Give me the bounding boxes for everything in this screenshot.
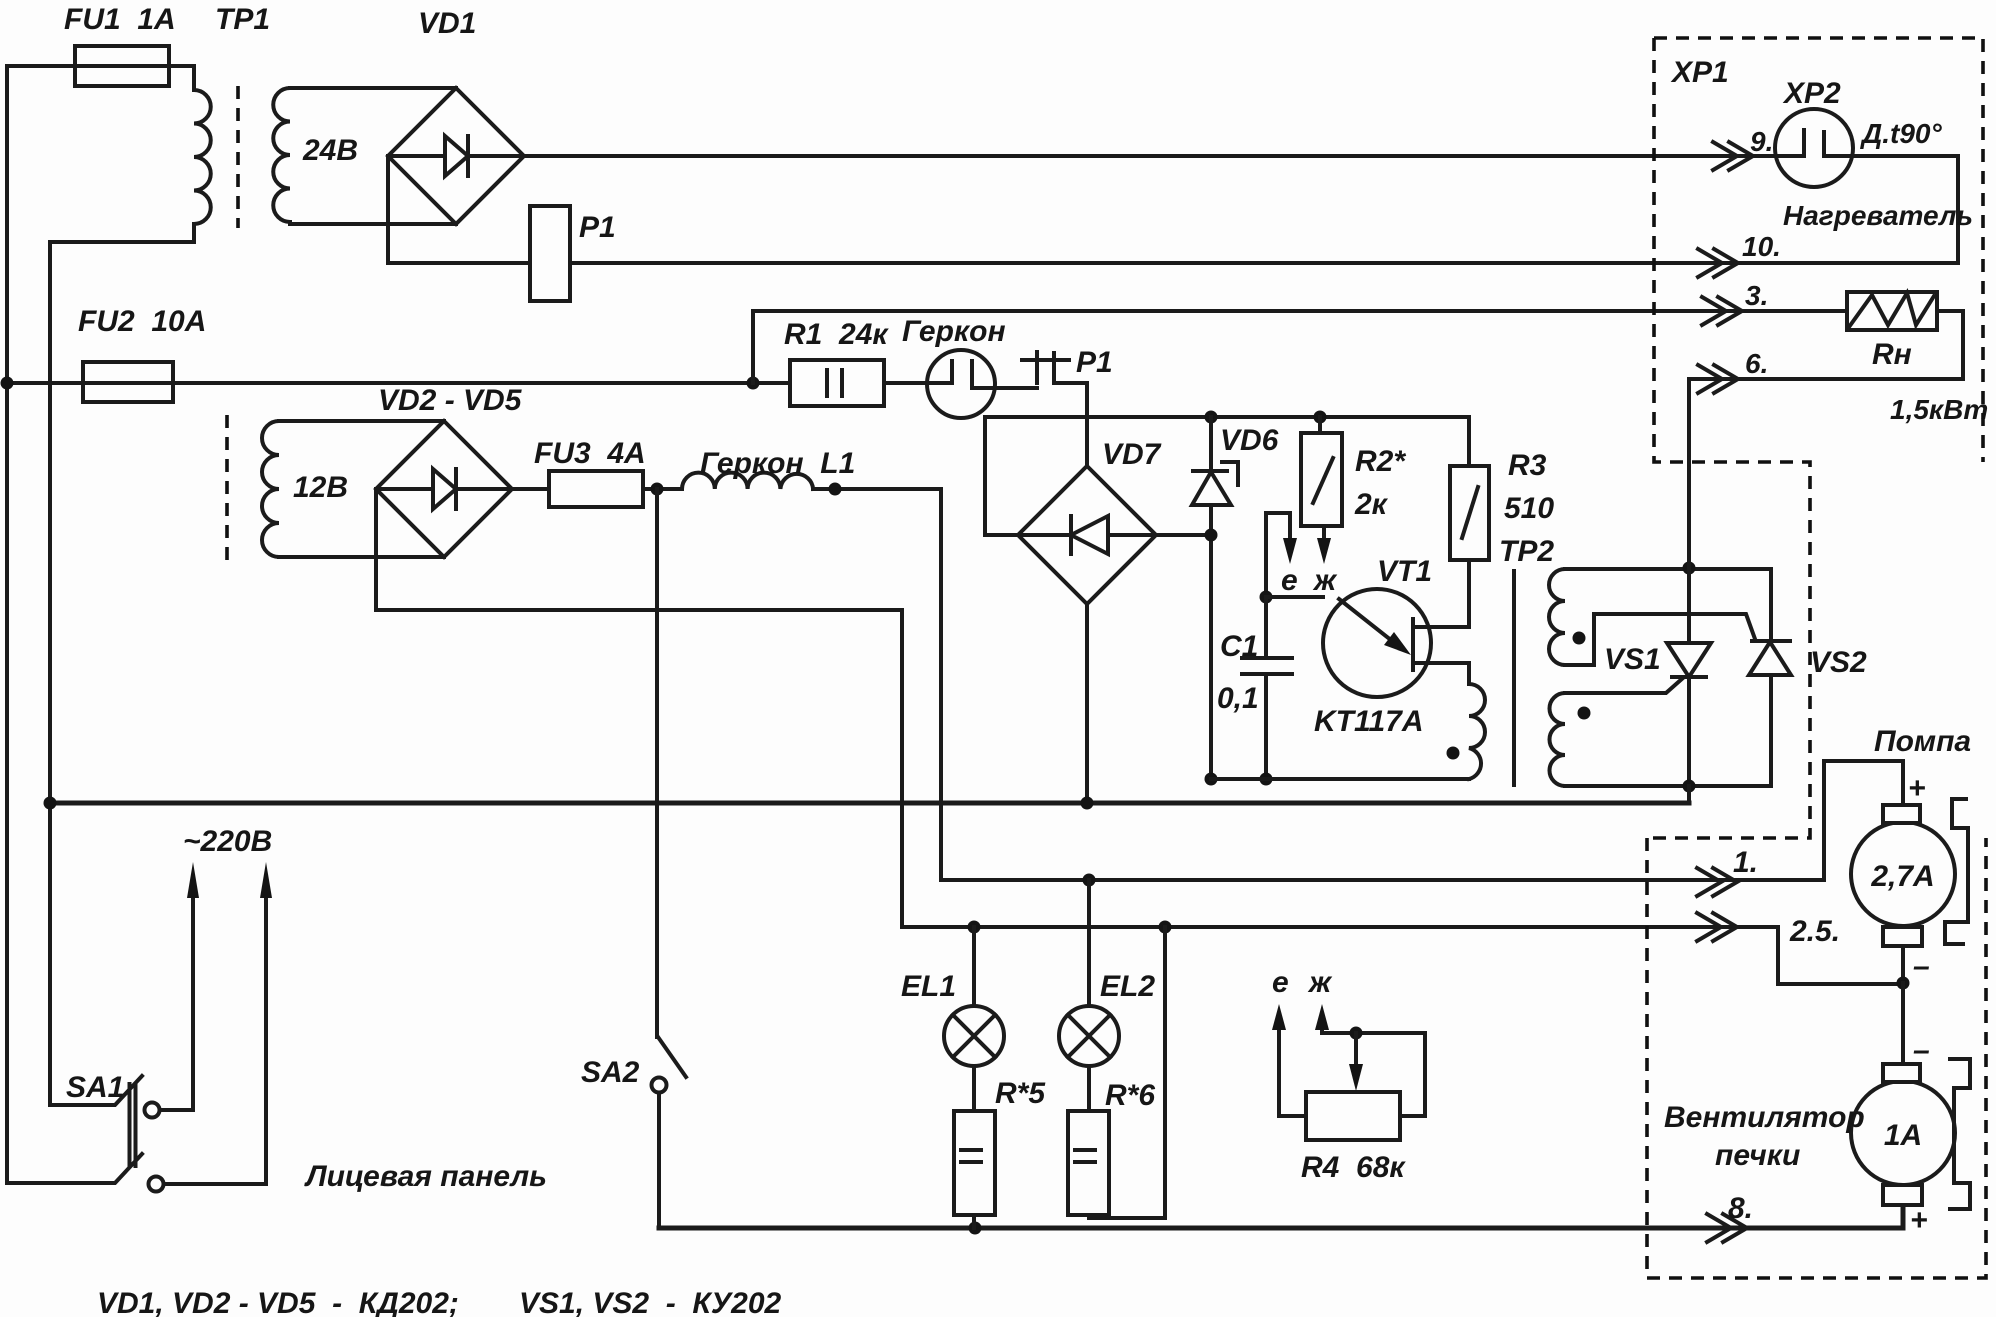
wire TP2 lower secondary top lead to VS1 gate [1565,678,1683,693]
wire VD1 plus output to XP2 (pin 9 circuit) [524,154,1804,158]
wire FU3 to L1 [643,487,682,491]
pin 10 arrow [1698,249,1738,277]
svg-text:C1: C1 [1220,630,1258,663]
pin 3 arrow [1702,297,1742,325]
wire bridge plus to FU3 [512,487,549,491]
wire VD1 minus output to relay P1 [388,156,530,263]
wire relay P1 to pin 10 [570,261,1742,265]
pin 9 arrow [1713,142,1753,170]
transformer TP2 upper secondary winding [1549,569,1565,665]
node FU3 output junction [651,483,664,496]
transformer TP2 lower secondary winding [1549,693,1565,786]
wire R*5 to bottom line [972,1215,976,1228]
svg-text:Д.t90°: Д.t90° [1860,118,1942,149]
pin 8 arrow [1707,1214,1747,1242]
svg-text:Геркон: Геркон [902,315,1006,348]
svg-text:1.: 1. [1733,846,1758,879]
svg-text:P1: P1 [1076,346,1113,379]
bridge rectifier VD1 [388,88,524,224]
wire reed switch to contact P1 [995,386,1037,390]
node EL2 branch junction [1083,874,1096,887]
wire 24V winding bottom lead [290,222,456,226]
wire R2 wiper arrow е hook [1266,513,1290,597]
wire SA2 to bottom line [657,1093,661,1228]
svg-text:TP2: TP2 [1499,535,1554,568]
capacitor C1 [1242,597,1292,779]
node pin 2.5 line EL1 junction [968,921,981,934]
transformer TP1 core (dashed) [236,86,240,228]
contact P1 of relay [1022,352,1069,383]
node rail VD7 junction [1081,797,1094,810]
svg-text:KT117A: KT117A [1314,705,1423,738]
wire 220V line through FU2 to R1 branch [7,381,790,385]
svg-text:R*6: R*6 [1105,1079,1155,1112]
node TP2 upper secondary polarity dot [1573,632,1586,645]
svg-text:SA1: SA1 [66,1071,124,1104]
wire mains left vertical [5,66,9,1183]
wire pin 3 line (R1 branch riser to Rн) [753,311,1847,383]
svg-text:TP1: TP1 [215,3,270,36]
wire bridge minus down and across to pin 2.5 line [376,489,1903,984]
inductor L1 reed coil [682,473,813,489]
node R4 wiper junction [1350,1027,1363,1040]
transistor VT1 [1323,589,1431,697]
transformer TP1 second core (dashed) [225,415,229,562]
svg-text:EL2: EL2 [1100,970,1155,1003]
svg-text:Нагреватель: Нагреватель [1783,200,1973,231]
wire R2 wiper arrow ж [1322,526,1326,541]
node top rail - VD6 [1205,411,1218,424]
resistor R1 [790,360,884,406]
wire EL1 top [972,927,976,1006]
svg-text:ж: ж [1307,966,1333,999]
svg-text:12В: 12В [293,471,348,504]
wire 24V winding top lead [290,86,456,90]
svg-text:R*5: R*5 [995,1077,1046,1110]
wire R4 terminal ж [1322,1014,1425,1116]
svg-text:3.: 3. [1745,280,1768,311]
motor fan 1A [1851,1081,1955,1185]
node VD6 bottom junction [1205,773,1218,786]
svg-text:2,7A: 2,7A [1870,860,1934,893]
node VS bottom junction [1683,780,1696,793]
svg-text:R3: R3 [1508,449,1547,482]
svg-text:8.: 8. [1728,1192,1753,1225]
svg-text:P1: P1 [579,211,616,244]
svg-text:Лицевая панель: Лицевая панель [304,1160,547,1193]
wire VS junction to main rail [1687,786,1691,803]
wire TP2 upper secondary top lead to thyristors [1565,567,1771,571]
wire 12V winding bottom lead [279,555,444,559]
resistor R2 variable [1318,417,1322,433]
svg-text:е: е [1272,966,1289,999]
pin 6 arrow [1698,365,1738,393]
relay coil P1 [530,206,570,301]
resistor R*5 [954,1111,995,1215]
wire 12V winding top lead [279,419,444,423]
bridge rectifier VD7 [1018,466,1156,604]
thyristor VS1 [1667,568,1711,786]
transformer TP1 24V secondary winding [273,88,290,222]
node TP2 primary polarity dot [1447,747,1460,760]
svg-text:VD1: VD1 [418,7,476,40]
svg-text:1A: 1A [1884,1119,1922,1152]
svg-text:~220В: ~220В [183,825,272,858]
wire bottom line SA2 to fan plus (pin 8 line) [659,1206,1903,1228]
lamp EL1 [944,1006,1004,1066]
fuse FU1 [75,46,169,86]
svg-text:FU2 10A: FU2 10A [78,305,206,338]
wire SA2 riser [655,489,659,1037]
wire oscillator plus frame (VD7 left corner to top rail to R3) [985,417,1469,535]
fuse FU3 [549,471,643,507]
node top rail - R2 [1314,411,1327,424]
reed switch Геркон [927,350,995,418]
node pin 2.5 line EL2-loop junction [1159,921,1172,934]
wire contact P1 down to VD7 bridge [1054,383,1087,466]
zener diode VD6 [1192,417,1238,779]
wire TP2 lower secondary bottom lead [1565,784,1771,788]
wire SA1 pole2 to 220V arrow [164,896,266,1184]
node FU2 line left junction [1,377,14,390]
wire VT1 base2 to TP2 primary [1413,663,1469,684]
svg-text:+: + [1908,772,1926,805]
node TP2 lower secondary polarity dot [1578,707,1591,720]
resistor Rн heater [1847,292,1937,330]
svg-text:XP2: XP2 [1782,77,1841,110]
switch SA1 pole 1 [50,1076,142,1105]
svg-text:XP1: XP1 [1670,56,1729,89]
wire R*6 loop back to pin 2.5 line [1089,927,1165,1218]
svg-text:VD2 - VD5: VD2 - VD5 [378,384,523,417]
wire SA1 pole1 to 220V arrow [160,896,193,1110]
wire R1 to reed switch [884,381,952,385]
svg-text:е: е [1281,564,1298,597]
wire TP1 primary bottom to SA1 pole [50,224,194,1105]
wire R4 terminal е [1279,1014,1306,1116]
transformer TP1 12V winding [262,421,279,557]
svg-text:9.: 9. [1750,126,1773,157]
bracket fan [1950,1059,1970,1209]
thyristor VS2 [1749,569,1791,786]
transformer TP2 core [1512,571,1516,785]
svg-text:SA2: SA2 [581,1056,640,1089]
svg-text:VS1, VS2 - КУ202: VS1, VS2 - КУ202 [519,1287,782,1317]
wire R3 to VT1 base1 [1413,560,1469,627]
fuse FU2 [83,362,173,402]
svg-text:2к: 2к [1354,488,1389,521]
wire VD7 right corner to VD6 [1156,533,1211,537]
wire main rail [50,801,1689,806]
svg-text:VS1: VS1 [1604,643,1661,676]
svg-text:FU3 4A: FU3 4A [534,437,646,470]
node rail left junction [44,797,57,810]
node C1 bottom junction [1260,773,1273,786]
wire node to fan minus [1901,983,1905,1065]
switch SA1 mechanical link [130,1084,136,1166]
bracket pump [1945,799,1968,944]
svg-text:R4 68к: R4 68к [1301,1151,1406,1184]
svg-text:печки: печки [1715,1139,1800,1172]
pin 2.5 arrow [1697,913,1737,941]
node L1 output junction [829,483,842,496]
connector XP1 dashed boundary upper [1647,38,1983,838]
svg-text:EL1: EL1 [901,970,956,1003]
wire FU1 input and to TP1 primary top [7,66,194,90]
svg-text:VT1: VT1 [1377,555,1432,588]
svg-text:510: 510 [1504,492,1554,525]
wire R4 wiper arrow [1354,1033,1358,1066]
transformer TP2 primary winding [1469,684,1485,779]
svg-text:0,1: 0,1 [1217,682,1259,715]
connector XP2 [1775,109,1853,187]
wire EL1 to R*5 [972,1066,976,1111]
wire EL2 to R*6 [1087,1066,1091,1111]
node emitter junction [1260,591,1273,604]
wire TP2 upper secondary bottom lead to VS2 gate [1565,614,1755,665]
potentiometer R4 [1306,1092,1400,1140]
lamp EL2 [1059,1006,1119,1066]
wire pin 6 riser and Rн return [1689,311,1963,568]
bridge rectifier VD2-VD5 [376,421,512,557]
svg-text:2.5.: 2.5. [1789,915,1840,948]
node VD6 - VD7 output junction [1205,529,1218,542]
svg-text:R1 24к: R1 24к [784,318,889,351]
svg-text:VS2: VS2 [1810,646,1867,679]
connector dashed boundary lower [1647,838,1986,1278]
switch SA1 pole 2 [7,1154,142,1183]
svg-text:Геркон L1: Геркон L1 [700,447,855,480]
resistor R3 [1450,466,1489,560]
svg-text:VD7: VD7 [1102,438,1162,471]
svg-text:24В: 24В [302,134,358,167]
wire EL2 top [1087,880,1091,1006]
wire VD7 bottom to main rail [1085,604,1089,803]
motor pump 2.7A [1851,822,1955,926]
node R1 branch junction [747,377,760,390]
svg-text:+: + [1910,1204,1928,1237]
wire L1 to pump feed (pin 1 line) [813,489,1903,880]
wire oscillator minus rail [1211,777,1469,781]
svg-text:1,5кВт: 1,5кВт [1890,394,1988,425]
svg-text:10.: 10. [1742,231,1781,262]
wire XP2 to heater loop [1742,156,1958,263]
svg-text:Помпа: Помпа [1874,725,1971,758]
svg-text:Вентилятор: Вентилятор [1664,1101,1865,1134]
svg-text:6.: 6. [1745,348,1768,379]
pin 1 arrow [1697,868,1737,896]
svg-text:VD6: VD6 [1220,424,1279,457]
node VS top junction [1683,562,1696,575]
svg-text:R2*: R2* [1355,445,1406,478]
transformer TP1 primary winding [194,90,211,224]
node pump minus junction [1897,977,1910,990]
svg-text:–: – [1913,950,1930,983]
switch SA2 [658,1037,686,1077]
svg-text:ж: ж [1312,564,1338,597]
svg-text:Rн: Rн [1872,338,1912,371]
resistor R*6 [1068,1111,1109,1215]
node EL1 bottom junction [969,1222,982,1235]
svg-text:VD1, VD2 - VD5 - КД202;: VD1, VD2 - VD5 - КД202; [97,1287,459,1317]
wire pump minus to node [1901,946,1905,983]
svg-text:FU1 1A: FU1 1A [64,3,176,36]
